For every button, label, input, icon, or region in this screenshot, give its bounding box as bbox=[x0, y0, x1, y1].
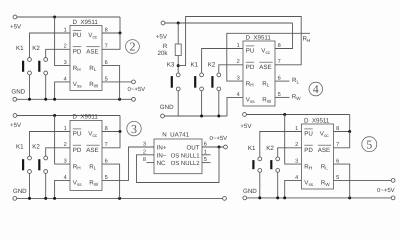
svg-text:4: 4 bbox=[313, 82, 319, 96]
circuit 2: panel number 2 bbox=[126, 40, 140, 54]
circuit 3: wire pin 6 RL to ground rail bbox=[102, 164, 120, 198]
op-amp N1 pin 5 OS NULL2 stub bbox=[202, 162, 211, 164]
svg-text:D X9511: D X9511 bbox=[73, 19, 99, 26]
svg-text:OUT: OUT bbox=[186, 145, 199, 152]
circuit 3: wire K1 to pin 1 PU bbox=[30, 132, 71, 157]
svg-text:4: 4 bbox=[64, 175, 67, 181]
svg-text:PU: PU bbox=[73, 131, 82, 138]
circuit 4: resistor R lead bottom to K3 bbox=[177, 56, 179, 74]
svg-text:NC: NC bbox=[157, 160, 166, 167]
pushbutton K1 (circuit 3) contacts bbox=[28, 156, 32, 160]
svg-text:+5V: +5V bbox=[10, 24, 22, 31]
circuit 4: pin 6 RL stub bbox=[275, 80, 290, 82]
circuit 5: wire K1 to pin 1 PU bbox=[260, 132, 302, 158]
circuit 2: wire K2 to pin 2 PD bbox=[46, 49, 70, 57]
circuit 2: wire K1 to pin 1 PU bbox=[30, 33, 71, 58]
svg-text:1: 1 bbox=[64, 27, 67, 33]
pushbutton K1 (circuit 5) actuator bar bbox=[252, 160, 254, 169]
svg-text:+5V: +5V bbox=[10, 122, 22, 129]
pushbutton K2 (circuit 5) contacts bbox=[276, 157, 280, 161]
circuit 2: output terminal Rw bbox=[132, 80, 136, 84]
circuit 2: ground output terminal bbox=[132, 97, 136, 101]
svg-text:3: 3 bbox=[131, 122, 137, 136]
circuit 4: wire R-K3 junction to pin 7 ASE over the top bbox=[178, 17, 301, 66]
svg-text:5: 5 bbox=[105, 76, 108, 82]
IC D2 X9511 body bbox=[70, 120, 102, 190]
svg-text:ASE: ASE bbox=[86, 147, 98, 154]
circuit 4: ground rail wire bbox=[164, 115, 227, 117]
pushbutton K2 (circuit 4) actuator bar bbox=[211, 76, 213, 88]
circuit 4: wire K2 to pin 2 PD bbox=[219, 65, 243, 73]
circuit 3: wire K2 to pin 2 PD bbox=[46, 148, 70, 156]
circuit 3: GND terminal bbox=[13, 197, 17, 201]
circuit 5: wire pin 6 RL to ground rail bbox=[334, 164, 350, 198]
circuit 2: ground rail junction dots bbox=[28, 98, 31, 101]
svg-text:ASE: ASE bbox=[318, 147, 330, 154]
circuit 5: ground rail junction dots bbox=[258, 196, 261, 199]
circuit 4: wire pin 4 Vss to ground rail bbox=[227, 97, 243, 116]
pushbutton K1 (circuit 2) contacts bbox=[28, 58, 32, 62]
pushbutton K1 (circuit 5) contacts bbox=[258, 157, 262, 161]
svg-text:OS NULL1: OS NULL1 bbox=[171, 152, 201, 159]
svg-text:4: 4 bbox=[64, 76, 67, 82]
op-amp N1 pin 8 NC stub bbox=[147, 162, 155, 164]
svg-text:8: 8 bbox=[143, 157, 146, 163]
circuit 4: ground rail junction dots bbox=[200, 115, 203, 118]
svg-text:0~+5V: 0~+5V bbox=[377, 187, 395, 194]
circuit 3: node at pin 8 bbox=[119, 130, 122, 133]
svg-text:1: 1 bbox=[237, 43, 240, 49]
svg-text:GND: GND bbox=[160, 104, 174, 111]
svg-text:2: 2 bbox=[295, 142, 298, 148]
svg-text:K1: K1 bbox=[248, 145, 256, 152]
pushbutton K2 (circuit 3) actuator bar bbox=[38, 159, 40, 170]
circuit 5: node at pin 8 bbox=[348, 130, 351, 133]
svg-text:0~+5V: 0~+5V bbox=[128, 86, 146, 93]
svg-text:1: 1 bbox=[64, 126, 67, 132]
svg-text:PU: PU bbox=[73, 32, 82, 39]
circuit 4: wire pin 8 Vcc to +5V rail bbox=[275, 23, 293, 49]
svg-text:5: 5 bbox=[366, 137, 372, 151]
svg-text:+5V: +5V bbox=[156, 34, 168, 41]
svg-text:2: 2 bbox=[130, 40, 136, 54]
circuit 4: panel number 4 bbox=[309, 82, 323, 96]
svg-text:K2: K2 bbox=[208, 62, 216, 69]
op-amp N1 UA741 body bbox=[154, 139, 202, 174]
svg-text:K1: K1 bbox=[191, 62, 199, 69]
svg-text:IN+: IN+ bbox=[157, 145, 167, 152]
circuit 4: resistor R body bbox=[175, 44, 181, 56]
circuit 4: resistor R lead top bbox=[177, 23, 179, 44]
svg-text:K1: K1 bbox=[16, 45, 24, 52]
circuit 4: wire K2 bottom to ground rail bbox=[218, 91, 220, 116]
op-amp ground reference terminal bbox=[223, 197, 227, 201]
svg-text:GND: GND bbox=[13, 188, 27, 195]
circuit 5: ground output terminal bbox=[391, 196, 395, 200]
svg-text:6: 6 bbox=[278, 76, 281, 82]
svg-text:7: 7 bbox=[105, 142, 108, 148]
svg-text:5: 5 bbox=[278, 92, 281, 98]
circuit 5: node at +5V rail x=284.7 bbox=[283, 113, 286, 116]
svg-text:ASE: ASE bbox=[86, 49, 98, 56]
circuit 3: wire pin 8 Vcc to +5V rail bbox=[102, 116, 120, 132]
svg-text:3: 3 bbox=[64, 159, 67, 165]
svg-text:+5V: +5V bbox=[240, 123, 252, 130]
circuit 3: wire +5V to pin 3 RH bbox=[55, 116, 70, 165]
svg-text:4: 4 bbox=[237, 92, 240, 98]
IC D3 X9511 body bbox=[243, 41, 275, 106]
circuit 3: +5V rail wire bbox=[17, 115, 120, 117]
circuit 3: ground rail wire to op-amp output ground terminal bbox=[17, 197, 223, 199]
circuit 4: RH net wire from pin 3 over the top bbox=[227, 33, 310, 81]
pushbutton K1 (circuit 2) actuator bar bbox=[22, 61, 24, 72]
circuit 5: wire pin 8 Vcc to +5V rail bbox=[334, 115, 350, 132]
circuit 5: wire pin 7 ASE to Vcc node bbox=[334, 132, 350, 148]
circuit 2: ground rail wire bbox=[17, 98, 132, 100]
pushbutton K2 (circuit 2) contacts bbox=[44, 58, 48, 62]
svg-text:K2: K2 bbox=[266, 145, 274, 152]
svg-text:6: 6 bbox=[336, 159, 339, 165]
circuit 3: ground rail junction dots bbox=[28, 197, 31, 200]
svg-text:PD: PD bbox=[246, 64, 255, 71]
circuit 4: node resistor R to rail bbox=[177, 22, 180, 25]
svg-text:PU: PU bbox=[246, 48, 255, 55]
circuit 5: panel number 5 bbox=[362, 137, 377, 152]
circuit 5: wire K2 bottom to ground rail bbox=[277, 172, 279, 198]
svg-text:2: 2 bbox=[237, 59, 240, 65]
circuit 5: wire pin 5 Rw to output terminal bbox=[334, 179, 392, 181]
circuit 2: +5V rail wire bbox=[17, 16, 120, 18]
pushbutton K2 (circuit 4) contacts bbox=[217, 73, 221, 77]
circuit 4: +5V rail wire bbox=[165, 22, 293, 24]
circuit 5: ground rail wire bbox=[247, 197, 392, 199]
svg-text:N UA741: N UA741 bbox=[162, 131, 189, 138]
circuit 2: wire K2 bottom to ground rail bbox=[45, 75, 47, 99]
circuit 4: +5V terminal bbox=[161, 21, 165, 25]
circuit 3: wire K1 bottom to ground rail bbox=[29, 173, 31, 198]
circuit 5: wire pin 4 Vss to ground rail bbox=[285, 180, 302, 198]
op-amp N1 wire OUT to output terminal bbox=[202, 146, 224, 148]
svg-text:PD: PD bbox=[73, 147, 82, 154]
pushbutton K2 (circuit 3) contacts bbox=[44, 156, 48, 160]
circuit 5: +5V rail wire bbox=[246, 114, 349, 116]
circuit 3: wire pin 5 Rw to op-amp IN+ bbox=[102, 147, 154, 180]
circuit 5: +5V terminal bbox=[243, 113, 247, 117]
circuit 5: wire K1 bottom to ground rail bbox=[259, 172, 261, 198]
pushbutton K1 (circuit 4) contacts bbox=[200, 73, 204, 77]
svg-text:4: 4 bbox=[295, 175, 298, 181]
svg-text:IN−: IN− bbox=[157, 152, 167, 159]
svg-text:D X9511: D X9511 bbox=[73, 114, 99, 121]
op-amp N1 node at OUT bbox=[218, 146, 221, 149]
circuit 3: wire pin 7 ASE to Vcc node bbox=[102, 132, 120, 148]
svg-text:OS NULL2: OS NULL2 bbox=[171, 160, 201, 167]
svg-text:D X9511: D X9511 bbox=[304, 117, 330, 124]
svg-text:PU: PU bbox=[304, 131, 313, 138]
pushbutton K2 (circuit 5) actuator bar bbox=[270, 160, 272, 169]
svg-text:0~+5V: 0~+5V bbox=[210, 135, 228, 142]
op-amp N1 feedback wire OUT to IN- bbox=[137, 147, 220, 183]
circuit 2: wire K1 bottom to ground rail bbox=[29, 75, 31, 99]
circuit 2: wire pin 7 ASE to Vcc node bbox=[102, 33, 120, 49]
svg-text:K1: K1 bbox=[16, 144, 24, 151]
svg-text:GND: GND bbox=[243, 188, 257, 195]
svg-text:3: 3 bbox=[237, 76, 240, 82]
svg-text:PD: PD bbox=[73, 49, 82, 56]
svg-text:R: R bbox=[163, 43, 168, 50]
svg-text:K3: K3 bbox=[167, 62, 175, 69]
svg-text:ASE: ASE bbox=[259, 64, 271, 71]
circuit 3: +5V terminal bbox=[13, 114, 17, 118]
svg-text:D X9511: D X9511 bbox=[246, 34, 272, 41]
circuit 5: wire +5V to pin 3 RH bbox=[285, 115, 302, 165]
pushbutton K1 (circuit 3) actuator bar bbox=[22, 159, 24, 170]
svg-text:3: 3 bbox=[295, 159, 298, 165]
circuit 2: GND terminal bbox=[13, 97, 17, 101]
svg-text:2: 2 bbox=[64, 44, 67, 50]
IC D1 X9511 body bbox=[70, 26, 102, 91]
circuit 3: node at +5V rail x=54.6 bbox=[53, 114, 56, 117]
circuit 4: node R-K3 junction bbox=[177, 64, 180, 67]
pushbutton K3 (circuit 4) contacts bbox=[176, 73, 180, 77]
svg-text:PD: PD bbox=[304, 147, 313, 154]
circuit 2: wire pin 8 Vcc to +5V rail bbox=[102, 17, 120, 33]
IC D4 X9511 body bbox=[302, 124, 334, 189]
svg-text:1: 1 bbox=[295, 126, 298, 132]
circuit 2: wire pin 5 Rw to output terminal bbox=[102, 81, 132, 83]
svg-text:6: 6 bbox=[105, 60, 108, 66]
circuit 5: GND terminal bbox=[243, 196, 247, 200]
circuit 4: wire K3 bottom to ground rail bbox=[177, 91, 179, 116]
op-amp N1 pin 1 OS NULL1 stub bbox=[202, 154, 211, 156]
circuit 2: node at pin 8 bbox=[119, 32, 122, 35]
svg-text:8: 8 bbox=[105, 126, 108, 132]
svg-text:8: 8 bbox=[278, 43, 281, 49]
circuit 4: GND terminal bbox=[161, 114, 165, 118]
circuit 5: wire K2 to pin 2 PD bbox=[278, 148, 302, 157]
svg-text:3: 3 bbox=[143, 142, 146, 148]
pushbutton K1 (circuit 4) actuator bar bbox=[194, 76, 196, 88]
op-amp output terminal 0~+5V bbox=[224, 145, 228, 149]
svg-text:6: 6 bbox=[105, 159, 108, 165]
circuit 4: pin 5 Rw stub bbox=[275, 96, 290, 98]
circuit 3: panel number 3 bbox=[127, 121, 141, 135]
circuit 5: output terminal Rw bbox=[391, 179, 395, 183]
circuit 4: wire K1 to pin 1 PU bbox=[202, 49, 243, 74]
circuit 4: wire K1 bottom to ground rail bbox=[201, 91, 203, 116]
svg-text:K2: K2 bbox=[32, 144, 40, 151]
svg-text:GND: GND bbox=[11, 89, 25, 96]
svg-text:3: 3 bbox=[64, 60, 67, 66]
svg-text:7: 7 bbox=[105, 44, 108, 50]
svg-text:5: 5 bbox=[105, 175, 108, 181]
circuit 2: node at +5V rail x=54.6 bbox=[53, 16, 56, 19]
pushbutton K3 (circuit 4) actuator bar bbox=[171, 76, 173, 88]
circuit 2: +5V terminal bbox=[13, 15, 17, 19]
svg-text:8: 8 bbox=[336, 126, 339, 132]
svg-text:5: 5 bbox=[336, 175, 339, 181]
svg-text:8: 8 bbox=[105, 27, 108, 33]
svg-text:7: 7 bbox=[336, 142, 339, 148]
circuit 3: wire K2 bottom to ground rail bbox=[45, 173, 47, 198]
svg-text:2: 2 bbox=[64, 142, 67, 148]
svg-text:7: 7 bbox=[278, 59, 281, 65]
circuit 2: wire pin 4 Vss to ground rail bbox=[55, 82, 70, 99]
circuit 3: wire pin 4 Vss to ground rail bbox=[55, 180, 70, 198]
svg-text:K2: K2 bbox=[32, 45, 40, 52]
svg-text:20k: 20k bbox=[158, 50, 169, 57]
circuit 2: wire +5V to pin 3 RH bbox=[55, 17, 70, 66]
pushbutton K2 (circuit 2) actuator bar bbox=[38, 61, 40, 72]
circuit 2: wire pin 6 RL to ground rail bbox=[102, 66, 120, 100]
